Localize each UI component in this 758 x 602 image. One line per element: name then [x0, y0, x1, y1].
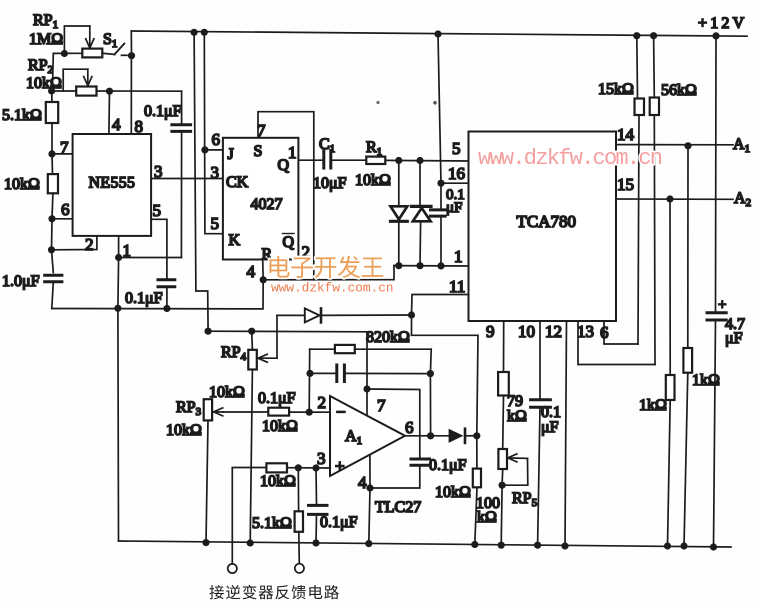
- op-amp A1 TLC27 triangle: [330, 396, 405, 476]
- svg-text:Q: Q: [283, 234, 295, 251]
- label: connect to inverter feedback circuit (CJK): [209, 585, 223, 599]
- capacitor 0.1uF (pin16) plates: [431, 208, 446, 211]
- svg-text:5: 5: [452, 139, 461, 158]
- wire: RP4 bottom down to ground rail: [250, 370, 252, 544]
- wire: TCA780 pin 14 to A1: [616, 144, 733, 146]
- wire: TCA780 pin 6 L to 15k leg: [604, 321, 638, 344]
- wire: 5.1k to pin7 node: [51, 123, 53, 154]
- capacitor 0.1uF (op-amp bypass) plates: [411, 458, 430, 461]
- svg-text:1: 1: [288, 143, 297, 162]
- wire: RP3 bottom to ground rail: [206, 420, 208, 542]
- wire: feedback top left: [310, 348, 335, 350]
- junction: cap bottom: [437, 262, 444, 269]
- wire: +12V down to 4.7uF: [715, 36, 718, 311]
- junction: D1 bottom: [395, 262, 402, 269]
- junction: feedback cap left: [306, 370, 313, 377]
- potentiometer RP1 body: [82, 49, 102, 58]
- junction: pin3 / 0.1uF: [312, 464, 319, 471]
- wire: RP2 right to 0.1uF cap top feed: [97, 90, 182, 92]
- junction: RP3 / ground rail: [202, 539, 209, 546]
- junction: RP4 top node: [248, 328, 255, 335]
- wire: cap to pin1 net: [440, 216, 442, 266]
- resistor 10k left: [48, 174, 58, 193]
- wire: 5.1k to right terminal (crosses gnd rail): [298, 532, 301, 564]
- svg-text:+: +: [335, 457, 345, 476]
- junction: diode D1 top: [395, 157, 402, 164]
- wire: 15k down to pin6 leg: [638, 115, 639, 344]
- svg-text:C1: C1: [319, 136, 335, 155]
- wire: +12V top rail: [131, 31, 747, 36]
- capacitor (feedback) plates: [335, 365, 338, 382]
- wire: cap top lead: [181, 91, 183, 123]
- capacitor 0.1uF (pin10) plates: [531, 398, 551, 401]
- wire: 1k to ground rail: [668, 400, 671, 546]
- svg-text:11: 11: [449, 277, 465, 296]
- diode D4 (pointing right): [449, 429, 464, 443]
- svg-text:+12V: +12V: [698, 15, 747, 32]
- resistor 5.1k (pin3): [295, 511, 303, 532]
- wire: to 4027 J pin: [205, 149, 223, 151]
- svg-text:4: 4: [112, 115, 121, 134]
- junction: +12V / 4.7uF branch: [712, 32, 719, 39]
- capacitor 0.1uF (pin5) plates: [158, 278, 175, 281]
- junction: pin16 node: [437, 180, 444, 187]
- svg-text:820kΩ: 820kΩ: [366, 329, 410, 346]
- svg-text:10kΩ: 10kΩ: [355, 172, 391, 189]
- svg-text:6: 6: [600, 323, 609, 342]
- wire: +12V to 56k: [653, 36, 656, 98]
- svg-text:6: 6: [61, 200, 70, 219]
- svg-text:0.1μF: 0.1μF: [125, 290, 163, 307]
- capacitor 0.1uF (VCC bypass) plates: [172, 123, 191, 126]
- svg-text:5: 5: [211, 214, 220, 233]
- wire: 1uF bottom to reset bus corner: [52, 282, 54, 309]
- capacitor 0.1uF (pin3) plates: [309, 504, 328, 507]
- resistor 5.1k left: [46, 102, 58, 123]
- junction: pin15 / 1k drop: [666, 195, 673, 202]
- junction: R pin / reset bus node: [260, 276, 267, 283]
- wire: reset bus to 4027 R net: [52, 280, 263, 309]
- resistor 820k feedback: [335, 345, 355, 353]
- svg-text:J: J: [228, 146, 234, 163]
- svg-text:6: 6: [405, 418, 414, 437]
- wire: down to ground rail corner: [117, 308, 120, 541]
- resistor 15k: [635, 99, 645, 116]
- svg-text:K: K: [229, 232, 241, 249]
- junction: NE555 pin4 node: [106, 88, 113, 95]
- wire: node to TCA780 pin 16: [441, 182, 469, 184]
- capacitor 1.0uF plates: [45, 274, 62, 277]
- svg-text:RP3: RP3: [176, 399, 202, 418]
- wire: 10k to op-amp pin 3: [287, 467, 330, 469]
- wire: Q pin 1 to C1: [298, 159, 323, 161]
- junction: pin4 / ground rail: [365, 540, 372, 547]
- wire: R pin stub down: [262, 260, 265, 280]
- svg-text:7: 7: [60, 138, 69, 157]
- resistor 1k (A1): [683, 348, 692, 373]
- RP5 wiper arrow: [508, 457, 528, 460]
- svg-text:R1: R1: [366, 139, 382, 158]
- wire: feedback left leg: [308, 349, 311, 412]
- svg-text:4027: 4027: [251, 196, 283, 213]
- svg-text:0.1μF: 0.1μF: [144, 103, 182, 120]
- wire: pin3 node down to 0.1uF: [315, 468, 318, 504]
- svg-text:16: 16: [448, 164, 465, 183]
- wire: RP1 wiper loop: [64, 26, 89, 54]
- wire: supply bus to op-amp V+ drop: [208, 331, 367, 389]
- wire: RP3 wiper to 10k input resistor: [223, 411, 268, 413]
- wire: clamp net to TCA780 pin 1: [394, 265, 469, 267]
- junction: pin12 / ground rail: [561, 542, 568, 549]
- wire: TCA780 pin 15 to A2: [616, 198, 733, 200]
- IC U2 4027 body: [223, 138, 299, 260]
- terminal circle (right): [295, 564, 304, 573]
- svg-text:1kΩ: 1kΩ: [639, 397, 667, 414]
- svg-text:10kΩ: 10kΩ: [435, 484, 471, 501]
- junction: pin4 node: [366, 484, 373, 491]
- junction: 0.1uF / ground rail: [312, 539, 319, 546]
- junction: D4 / pin11 riser / 10k: [473, 432, 480, 439]
- svg-text:5.1kΩ: 5.1kΩ: [252, 515, 292, 532]
- svg-text:10kΩ: 10kΩ: [209, 384, 245, 401]
- wire: left terminal up to 10k (pin3): [232, 468, 266, 564]
- wire: NE555 pin 3 to 4027 CK: [151, 178, 223, 180]
- svg-text:15: 15: [617, 175, 634, 194]
- svg-text:TLC27: TLC27: [375, 499, 421, 516]
- wire: TCA780 pin 11 over and down: [412, 295, 469, 316]
- wire: TCA780 pin 9 down to 79k: [503, 321, 505, 372]
- svg-text:2: 2: [85, 235, 94, 254]
- svg-text:RP4: RP4: [221, 344, 247, 363]
- svg-text:μF: μF: [446, 200, 462, 216]
- diode D3 (pointing right): [305, 308, 320, 322]
- svg-text:5.1kΩ: 5.1kΩ: [2, 107, 42, 124]
- svg-text:56kΩ: 56kΩ: [661, 82, 697, 99]
- wire: D3 anode from RP4 wiper riser: [277, 314, 305, 316]
- potentiometer RP4 body: [248, 350, 256, 370]
- resistor 10k (pin3 input): [266, 463, 287, 472]
- svg-text:10kΩ: 10kΩ: [262, 418, 298, 435]
- svg-text:kΩ: kΩ: [507, 408, 527, 425]
- wire: riser down to RP4 wiper: [276, 315, 278, 358]
- svg-text:6: 6: [212, 130, 221, 149]
- svg-text:3: 3: [317, 449, 326, 468]
- wire: V+ over and down to bypass cap: [367, 389, 420, 458]
- wire: D1 anode lead: [398, 161, 400, 206]
- wire: feedback right leg upper: [429, 349, 432, 373]
- svg-text:8: 8: [135, 117, 144, 136]
- junction: pin14 / 1k drop: [684, 142, 691, 149]
- wire: bypass cap to pin 4: [370, 465, 420, 488]
- wire: TCA780 pin 10 down to 0.1uF: [539, 321, 541, 398]
- svg-text:www.dzkfw.com.cn: www.dzkfw.com.cn: [478, 146, 662, 171]
- wire: node to NE555 pin 7: [52, 153, 73, 155]
- wire: 0.1uF to ground rail: [538, 407, 540, 545]
- wire: +12V to 15k: [636, 36, 639, 99]
- wire: down to 10k: [51, 154, 54, 174]
- svg-text:S: S: [254, 143, 263, 160]
- wire: pin1 to cap return: [119, 257, 182, 259]
- svg-text:RP5: RP5: [512, 490, 538, 509]
- resistor 10k (pin2 input): [268, 408, 289, 416]
- wire: R1 to TCA780 pin 5: [385, 159, 468, 162]
- svg-text:13: 13: [577, 322, 594, 341]
- junction: RP2 left node on left rail: [48, 87, 55, 94]
- wire: 56k down to pin13 leg: [653, 115, 656, 365]
- wire: feedback cap left lead: [310, 372, 337, 374]
- terminal circle (left): [228, 564, 237, 573]
- junction: feedback right / cap: [427, 370, 434, 377]
- wire: NE555 pin 5 to 0.1uF: [151, 219, 167, 278]
- wire: C1 to R1: [331, 159, 367, 161]
- wire: feedback top right: [355, 348, 431, 350]
- svg-text:10μF: 10μF: [313, 175, 347, 192]
- junction: NE555 pin7 node: [48, 150, 55, 157]
- svg-text:10kΩ: 10kΩ: [166, 422, 202, 439]
- svg-text:NE555: NE555: [89, 175, 136, 192]
- junction: pin10 cap / ground rail: [534, 542, 541, 549]
- wire: cap bottom lead down to pin1 wire: [180, 131, 182, 257]
- wire: D4 cathode to node: [465, 435, 477, 437]
- wire: down to 1uF cap: [52, 250, 54, 273]
- resistor 10k (below D4): [473, 469, 481, 488]
- wire: RP5 bottom lead: [501, 469, 504, 485]
- wire: S pin loop over to R net: [258, 112, 314, 280]
- junction: S1 right contact node: [128, 52, 135, 59]
- resistor 56k: [650, 98, 659, 116]
- wire: RP4 top to +12V bus: [251, 331, 254, 350]
- svg-text:9: 9: [486, 322, 495, 341]
- svg-text:RP1: RP1: [33, 12, 58, 31]
- svg-text:1: 1: [454, 247, 463, 266]
- diode D1 (pointing down): [391, 206, 408, 219]
- resistor 79k: [498, 372, 509, 396]
- svg-text:15kΩ: 15kΩ: [598, 81, 634, 98]
- junction: supply bus / RP3 top: [205, 328, 212, 335]
- wire: 79k to RP5: [502, 396, 505, 450]
- wire: pin 7 stub to op-amp: [366, 389, 368, 415]
- wire: RP2 wiper arrow shaft: [87, 69, 89, 85]
- wire: RP5 wiper return loop: [502, 458, 528, 485]
- wire: feedback right leg lower: [429, 374, 431, 436]
- junction: 1k A1 / ground rail: [680, 542, 687, 549]
- svg-text:0.1μF: 0.1μF: [429, 457, 467, 474]
- wire: 0.1uF to ground rail: [315, 514, 318, 543]
- wire: 10k to ground rail: [475, 487, 477, 544]
- svg-text:+: +: [718, 297, 726, 313]
- junction: 4.7uF / ground rail: [710, 543, 717, 550]
- svg-text:TCA780: TCA780: [517, 212, 577, 231]
- resistor R1 body: [366, 157, 385, 164]
- junction: pin11 / D3 node: [408, 311, 415, 318]
- junction: 10k / ground rail: [471, 541, 478, 548]
- junction: output / feedback: [427, 432, 434, 439]
- wire: node to NE555 pin 6: [52, 218, 73, 220]
- svg-text:3: 3: [211, 163, 220, 182]
- wire: RP5 to ground rail: [500, 485, 503, 545]
- svg-text:kΩ: kΩ: [477, 509, 497, 526]
- wire: left rail to RP2 left: [52, 90, 77, 92]
- junction: diode D2 top: [416, 157, 423, 164]
- junction: D2 bottom: [416, 262, 423, 269]
- wire: +12V down to pin 16 node: [438, 34, 441, 183]
- junction: +12V / 15k: [633, 32, 640, 39]
- potentiometer RP2 body: [76, 87, 96, 96]
- wire: D2 cathode lead: [419, 161, 421, 206]
- wire: NE555 pin 8 stub up to S1 node: [130, 56, 132, 134]
- wire: +12V drop A with jog to RP3 bus: [194, 32, 208, 331]
- wire: S1 node up to +12V rail corner: [130, 31, 132, 56]
- junction: pin3 / 5.1k: [295, 464, 302, 471]
- potentiometer RP5 body: [498, 449, 507, 469]
- junction: pin1 / bypass cap return: [115, 254, 122, 261]
- wire: pin5 cap to reset bus: [166, 287, 168, 309]
- diode D2 (pointing up): [412, 205, 432, 208]
- wire: pin4 to ground rail: [369, 488, 370, 544]
- svg-text:5: 5: [153, 201, 162, 220]
- svg-text:3: 3: [154, 162, 163, 181]
- svg-text:CK: CK: [226, 174, 249, 191]
- svg-text:0.1μF: 0.1μF: [320, 514, 358, 531]
- wire: feedback cap right lead: [344, 372, 430, 374]
- wire: RP2 wiper loop: [63, 69, 88, 91]
- wire: TCA780 pin 13 L to 56k leg: [578, 321, 655, 365]
- wire: op-amp pin 4 stub: [369, 456, 371, 488]
- junction: +12V / 56k: [650, 32, 657, 39]
- wire: pin11 node to op-amp output diode node: [412, 315, 479, 436]
- wire: 10k to pin6 node: [51, 193, 54, 219]
- wire: node down to 0.1uF: [440, 183, 442, 208]
- junction: reset bus / NE555 gnd line: [114, 305, 121, 312]
- svg-text:1MΩ: 1MΩ: [29, 31, 63, 48]
- wire: D3 cathode to pin11 node: [321, 314, 412, 316]
- svg-text:RP2: RP2: [28, 57, 53, 76]
- wire: NE555 pin 4 stub up: [108, 91, 111, 134]
- junction: op-amp pin7 node: [363, 385, 370, 392]
- svg-text:1.0μF: 1.0μF: [2, 273, 40, 290]
- resistor 1k (A2): [666, 375, 675, 400]
- wire: A1 node down to 1k: [687, 146, 689, 348]
- svg-text:10: 10: [518, 322, 535, 341]
- svg-text:4: 4: [358, 473, 367, 492]
- RP1 wiper arrowhead: [86, 39, 94, 48]
- junction: NE555 pin2 node: [48, 246, 55, 253]
- svg-text:−: −: [336, 403, 346, 422]
- wire: NE555 pin 1 stub down: [118, 236, 120, 258]
- junction: RP1 left/wiper node: [61, 50, 68, 57]
- wire: output to D4: [405, 435, 449, 437]
- svg-text:12: 12: [545, 322, 562, 341]
- svg-text:14: 14: [617, 125, 635, 144]
- svg-text:μF: μF: [541, 419, 559, 436]
- junction: RP4 / ground rail: [247, 539, 254, 546]
- junction: NE555 pin6 node: [48, 215, 55, 222]
- svg-text:2: 2: [318, 393, 327, 412]
- wire: ground bottom rail: [119, 541, 732, 547]
- svg-text:10kΩ: 10kΩ: [260, 473, 296, 490]
- capacitor C1 plates: [322, 151, 325, 169]
- wire: 1k to ground rail: [684, 373, 688, 546]
- wire: S1 right contact stub: [122, 54, 128, 56]
- wire: A2 node down to 1k: [669, 199, 671, 375]
- junction: +12V rail / supply drop A: [191, 29, 198, 36]
- junction: pin2 / feedback node: [306, 409, 313, 416]
- junction: RP5 bottom node: [499, 482, 506, 489]
- watermark: dianzi kaifawang (orange CJK): [270, 256, 290, 278]
- svg-text:7: 7: [377, 396, 386, 415]
- wire: D1 cathode lead: [398, 223, 400, 266]
- capacitor 4.7uF plates: [707, 311, 726, 314]
- wire: node to NE555 pin 2 stub: [52, 236, 97, 250]
- junction: +12V rail / J-K drop B: [201, 29, 208, 36]
- svg-text:μF: μF: [725, 330, 743, 347]
- svg-text:10kΩ: 10kΩ: [26, 75, 62, 92]
- wire: D2 anode lead: [419, 223, 422, 266]
- IC U3 TCA780 body: [469, 132, 617, 322]
- junction: J pin tap on drop B: [201, 146, 208, 153]
- junction: 1k A2 / ground rail: [664, 542, 671, 549]
- wire: TCA780 pin 12 to ground rail: [565, 321, 567, 546]
- scan speck: [376, 101, 379, 104]
- svg-text:A2: A2: [734, 190, 751, 209]
- svg-text:A1: A1: [733, 136, 750, 155]
- junction: RP5 / ground rail: [498, 542, 505, 549]
- junction: +12V rail / pin16 drop: [434, 30, 441, 37]
- scan speck: [433, 101, 437, 105]
- RP4 wiper arrow: [259, 357, 278, 359]
- wire: RP1 right to S1 contact: [102, 53, 114, 54]
- wire: 10k to op-amp pin 2: [289, 411, 330, 413]
- svg-text:S1: S1: [103, 31, 117, 50]
- RP2 wiper arrowhead: [84, 77, 92, 86]
- overline of Qbar: [283, 233, 295, 235]
- IC U1 NE555 body: [73, 134, 152, 236]
- wire: rail into 5.1k: [51, 91, 53, 102]
- svg-text:www.dzkfw.com.cn: www.dzkfw.com.cn: [271, 281, 393, 296]
- RP3 wiper arrow: [214, 411, 224, 413]
- junction: reset bus / pin5 cap: [163, 305, 170, 312]
- wire: down to pin2 node: [51, 219, 54, 250]
- wire: +12V drop B to 4027 K pin: [204, 32, 223, 233]
- svg-text:4: 4: [247, 262, 256, 281]
- potentiometer RP3 body: [204, 399, 212, 420]
- svg-text:10kΩ: 10kΩ: [4, 176, 40, 193]
- switch S1 blade (open): [115, 44, 125, 55]
- wire: 4.7uF to ground rail: [714, 320, 716, 547]
- svg-text:0.1μF: 0.1μF: [258, 390, 296, 407]
- wire: RP1 to left rail down to RP2 node: [52, 53, 82, 91]
- wire: R net over to diode clamp net: [263, 266, 394, 280]
- wire: down to 5.1k: [297, 468, 299, 512]
- wire: node down to 10k: [476, 436, 478, 469]
- wire: RP1 wiper arrow shaft: [89, 26, 91, 48]
- wire: pin1 down to reset bus crossing: [117, 258, 120, 309]
